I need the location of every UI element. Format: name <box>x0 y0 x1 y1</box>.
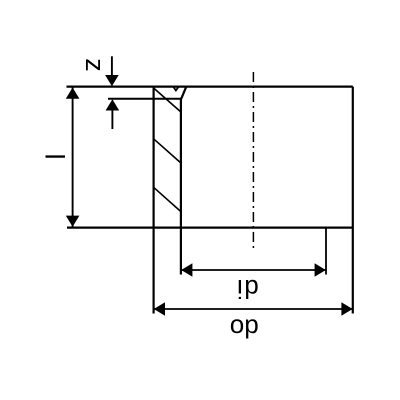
wire do dimension line <box>154 308 353 310</box>
svg-text:l: l <box>39 154 69 160</box>
wire chamfer <box>181 87 186 99</box>
wire hatch 2 <box>154 139 181 163</box>
svg-text:z: z <box>80 58 110 72</box>
wire bore edge <box>180 99 182 275</box>
wire top face line <box>67 85 353 87</box>
wire di dimension line <box>181 269 326 271</box>
wire di right extension <box>325 228 327 275</box>
wire z top arrow <box>111 56 113 75</box>
wire right outer edge <box>352 87 354 314</box>
svg-text:do: do <box>230 314 259 344</box>
svg-text:di: di <box>235 274 258 304</box>
wire bottom line <box>67 227 353 229</box>
wire left wall outer edge <box>153 87 155 314</box>
wire l dimension line <box>72 88 74 227</box>
wire hatch 1 <box>154 88 181 112</box>
wire inner bore top line <box>108 98 182 100</box>
wire centerline <box>252 72 254 248</box>
wire z bottom arrow <box>111 110 113 129</box>
wire V notch <box>173 87 179 91</box>
wire hatch 3 <box>154 187 181 211</box>
